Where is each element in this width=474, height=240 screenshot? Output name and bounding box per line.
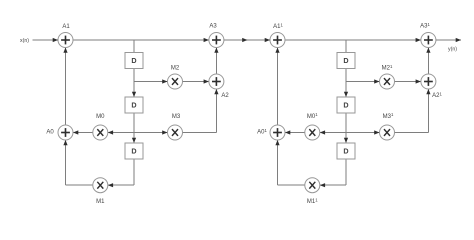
svg-text:M21: M21 bbox=[382, 64, 393, 72]
svg-text:M01: M01 bbox=[307, 112, 318, 120]
svg-text:D: D bbox=[131, 101, 136, 110]
svg-text:A11: A11 bbox=[273, 22, 283, 30]
svg-text:x(n): x(n) bbox=[20, 38, 29, 44]
svg-text:M1: M1 bbox=[96, 199, 105, 205]
svg-text:D: D bbox=[131, 56, 136, 65]
svg-text:M11: M11 bbox=[307, 197, 318, 205]
svg-text:D: D bbox=[343, 56, 348, 65]
svg-text:A01: A01 bbox=[257, 128, 267, 136]
svg-text:M0: M0 bbox=[96, 114, 105, 120]
svg-text:D: D bbox=[343, 101, 348, 110]
svg-text:M2: M2 bbox=[171, 66, 180, 72]
svg-text:A3: A3 bbox=[209, 24, 217, 30]
svg-text:A31: A31 bbox=[420, 22, 430, 30]
svg-text:A2: A2 bbox=[221, 93, 229, 99]
svg-text:D: D bbox=[131, 147, 136, 156]
svg-text:A1: A1 bbox=[62, 24, 70, 30]
svg-text:A0: A0 bbox=[46, 130, 54, 136]
svg-text:M3: M3 bbox=[172, 114, 181, 120]
svg-text:M31: M31 bbox=[383, 112, 394, 120]
svg-text:A21: A21 bbox=[432, 91, 442, 99]
svg-text:y(n): y(n) bbox=[448, 47, 457, 53]
svg-text:D: D bbox=[343, 147, 348, 156]
